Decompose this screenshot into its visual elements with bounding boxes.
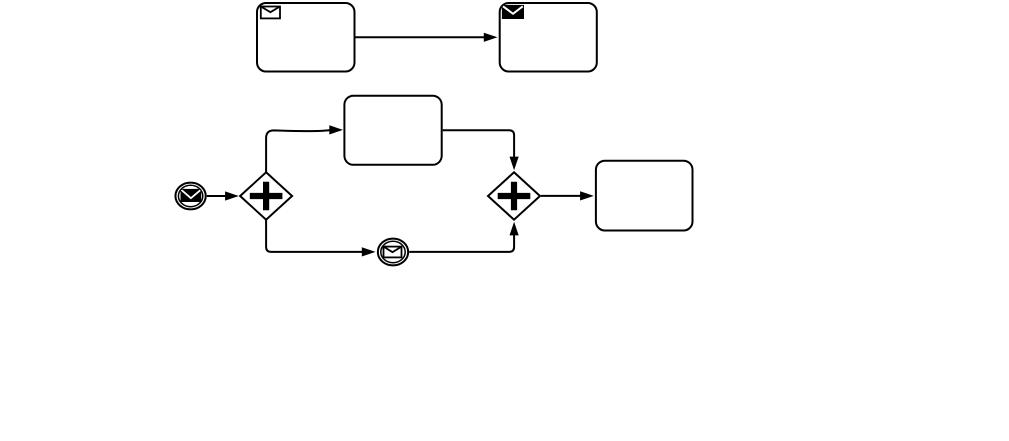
sequence flow F5: G1 bottom to catch event E2 <box>266 220 375 257</box>
intermediate message throw event E1 (double circle, filled envelope) <box>175 183 205 210</box>
parallel gateway G2 plus marker <box>498 182 531 211</box>
send task T2 envelope icon (filled) <box>502 5 524 19</box>
task T4 (right rounded rectangle) <box>596 161 693 231</box>
receive task T1 envelope icon (outline) <box>261 7 280 19</box>
intermediate message catch event E2 (double circle, outline envelope) <box>378 239 408 266</box>
sequence flow F4: T3 to gateway G2 (down into top) <box>443 130 519 170</box>
receive task T1 (top-left rounded rectangle) <box>257 3 355 72</box>
parallel gateway G1 (diamond) <box>240 172 292 219</box>
parallel gateway G1 plus marker <box>250 182 283 211</box>
sequence flow F3: G1 top to task T3 <box>266 125 343 172</box>
sequence flow F6: E2 to gateway G2 (up into bottom) <box>409 222 519 252</box>
sequence flow F7: G2 to task T4 <box>541 191 594 200</box>
send task T2 (top-right rounded rectangle) <box>500 3 597 72</box>
sequence flow F1: T1 to T2 (straight arrow) <box>356 33 498 42</box>
parallel gateway G2 (diamond) <box>488 172 540 219</box>
task T3 (middle rounded rectangle) <box>344 96 441 165</box>
sequence flow F2: E1 to gateway G1 <box>207 191 239 200</box>
